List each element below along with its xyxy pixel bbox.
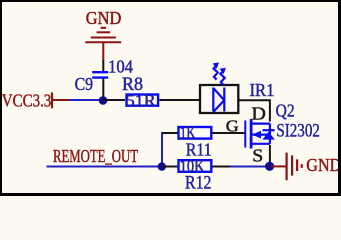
resistor R8 — [103, 75, 199, 110]
middle stub — [251, 134, 270, 136]
power port VCC3.3 — [2, 90, 69, 110]
svg-text:GND: GND — [306, 155, 341, 175]
svg-text:IR1: IR1 — [250, 80, 275, 100]
node junction at C9/R8 — [99, 96, 108, 105]
svg-text:REMOTE_OUT: REMOTE_OUT — [53, 146, 138, 166]
body diode triangle — [262, 132, 274, 140]
transistor Q2 SI2302 — [212, 101, 320, 167]
svg-text:VCC3.3: VCC3.3 — [2, 90, 52, 110]
wire REMOTE_OUT horizontal — [47, 166, 163, 168]
source pin — [269, 145, 271, 166]
ground GND (right) — [271, 153, 341, 181]
body diode cathode bar — [263, 129, 275, 131]
IR emission arrow 2 — [220, 68, 226, 85]
svg-text:S: S — [252, 145, 263, 165]
svg-text:D: D — [251, 103, 266, 123]
wire vertical to R11 — [161, 132, 163, 167]
resistor R12 — [162, 157, 231, 194]
svg-text:GND: GND — [86, 8, 122, 28]
source stub — [251, 143, 270, 145]
right vertical — [269, 124, 271, 144]
svg-text:R8: R8 — [122, 75, 143, 95]
photodiode IR1 — [200, 62, 275, 113]
node junction at R11/R12 branch — [158, 162, 166, 170]
drain stub — [251, 122, 270, 124]
svg-text:104: 104 — [108, 56, 133, 76]
gate bar — [244, 121, 246, 148]
IR emission arrow 1 — [213, 62, 219, 79]
wire IR1 to Q2 drain — [239, 100, 271, 121]
channel bar — [250, 119, 253, 149]
svg-text:C9: C9 — [75, 74, 94, 94]
ground GND (top) — [85, 28, 121, 61]
channel arrow — [252, 131, 261, 139]
svg-text:SI2302: SI2302 — [276, 122, 320, 142]
svg-text:R12: R12 — [185, 174, 212, 194]
svg-text:Q2: Q2 — [276, 101, 295, 121]
capacitor C9 — [75, 56, 133, 100]
wire R12 to source junction — [230, 166, 269, 168]
node junction at Q2 source — [265, 162, 274, 171]
wire VCC3.3 to junction — [69, 99, 100, 101]
resistor R11 — [162, 123, 245, 160]
gate pin — [212, 132, 246, 134]
